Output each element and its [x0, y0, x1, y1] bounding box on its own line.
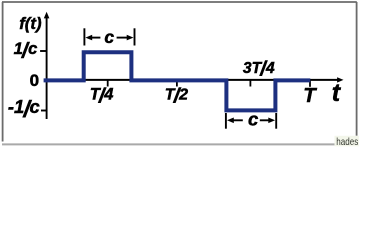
svg-text:1/c: 1/c — [14, 38, 38, 62]
frame left border — [2, 2, 4, 142]
t-axis arrowhead — [337, 77, 343, 82]
y-axis arrowhead — [44, 12, 50, 19]
frame bottom border — [2, 143, 336, 145]
dimension bar left (pulse 2) — [225, 113, 227, 129]
tick T — [309, 80, 311, 87]
hades watermark background — [335, 136, 360, 147]
tick 3T/4 — [249, 80, 251, 87]
waveform f(t) blue — [44, 52, 311, 110]
svg-text:T: T — [303, 85, 317, 107]
tick 1/c level — [40, 50, 47, 52]
y-axis f(t) — [46, 17, 48, 119]
dimension left arrow (pulse 1) — [85, 35, 100, 41]
dimension left arrow (pulse 2) — [227, 118, 243, 124]
dimension bar right (pulse 1) — [134, 28, 136, 45]
svg-text:t: t — [332, 79, 342, 107]
dimension bar left (pulse 1) — [83, 28, 85, 45]
tick -1/c level — [41, 110, 47, 112]
svg-text:c: c — [248, 109, 259, 130]
tick T/2 — [176, 80, 178, 87]
svg-text:T/4: T/4 — [90, 84, 114, 107]
dimension right arrow (pulse 2) — [260, 118, 275, 124]
frame right border — [356, 2, 358, 136]
svg-text:-1/c: -1/c — [8, 96, 40, 122]
dimension bar right (pulse 2) — [275, 113, 277, 129]
frame top border — [2, 1, 357, 3]
svg-text:hades: hades — [336, 137, 358, 147]
t-axis — [46, 79, 338, 81]
svg-text:3T/4: 3T/4 — [243, 58, 275, 80]
svg-text:c: c — [104, 27, 114, 47]
svg-text:f(t): f(t) — [19, 14, 42, 33]
svg-text:T/2: T/2 — [165, 84, 188, 107]
tick T/4 — [107, 80, 109, 87]
dimension right arrow (pulse 1) — [117, 35, 134, 41]
svg-text:0: 0 — [30, 71, 39, 90]
